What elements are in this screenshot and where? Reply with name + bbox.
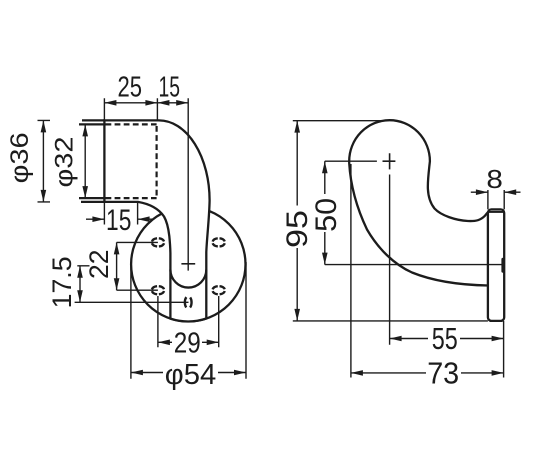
svg-text:φ36: φ36	[6, 132, 34, 183]
svg-text:50: 50	[310, 198, 343, 232]
svg-text:55: 55	[432, 321, 458, 356]
svg-text:15: 15	[159, 71, 181, 103]
svg-text:17.5: 17.5	[47, 256, 77, 308]
svg-text:73: 73	[427, 356, 459, 391]
svg-text:22: 22	[84, 249, 114, 279]
svg-text:8: 8	[486, 164, 503, 194]
svg-text:φ54: φ54	[165, 359, 217, 391]
svg-text:25: 25	[118, 71, 143, 103]
svg-text:15: 15	[106, 204, 131, 237]
svg-text:29: 29	[174, 327, 201, 359]
svg-text:95: 95	[281, 210, 314, 248]
svg-text:φ32: φ32	[51, 137, 79, 188]
